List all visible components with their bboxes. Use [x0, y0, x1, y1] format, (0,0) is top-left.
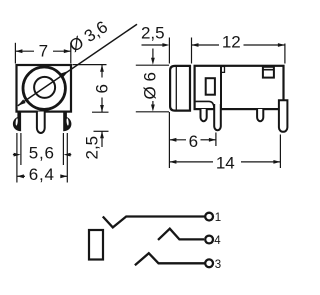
dim 5,6 left outside arrow: [13, 154, 16, 156]
svg-text:2,5: 2,5: [82, 136, 101, 160]
dim 5,6 right outside arrow: [68, 154, 71, 156]
svg-text:6,4: 6,4: [29, 165, 55, 184]
side view window top right: [263, 67, 274, 78]
dim 12 arrow left: [192, 43, 199, 47]
front 6 top extension line: [73, 64, 107, 66]
schematic contact 1 wire: [103, 217, 205, 228]
front view right mounting tab: [63, 111, 71, 132]
dim 14 arrow right: [273, 160, 280, 164]
front view center pin: [37, 112, 45, 134]
diameter 6 top extension line: [136, 64, 169, 66]
dim 7 arrow left: [15, 49, 22, 53]
dim 5,6 left extension lines: [16, 133, 18, 183]
svg-text:12: 12: [222, 33, 241, 52]
svg-text:4: 4: [214, 235, 221, 247]
dim 5,6 right extension lines: [62, 133, 64, 165]
side view mounting bracket: [195, 101, 214, 108]
side view window top right inner bar: [263, 69, 274, 71]
side 2,5 left extension line (bushing face): [168, 38, 170, 64]
svg-text:6: 6: [93, 84, 112, 93]
dim 6,4 line: [17, 175, 25, 177]
schematic terminal circle 4: [205, 236, 213, 244]
dim 14 right extension line: [279, 135, 281, 169]
side view notch at divider top: [222, 67, 225, 73]
dim 7 arrow right: [64, 49, 71, 53]
schematic contact 3 wire: [135, 253, 205, 265]
svg-text:6: 6: [189, 132, 198, 151]
side 2,5 leader with right arrow: [142, 44, 164, 46]
side view window left: [206, 78, 215, 95]
side view leg 1: [201, 109, 207, 121]
front view outer barrel circle: [23, 67, 65, 109]
side dim 6 line: [169, 139, 186, 141]
svg-text:Ø 6: Ø 6: [141, 72, 160, 99]
svg-text:3: 3: [215, 259, 221, 271]
diameter leader arrowhead lower-left: [18, 99, 26, 105]
svg-text:5,6: 5,6: [29, 144, 55, 163]
side view rear plate pin: [279, 100, 288, 132]
front dim 6 line upper segment with up arrow: [101, 65, 103, 78]
side view bushing rim line: [175, 67, 177, 111]
side view leg 2 (long pin): [214, 104, 221, 130]
schematic contact 4 wire: [158, 229, 204, 240]
side dim 6 right extension line: [215, 133, 217, 147]
svg-text:1: 1: [215, 212, 221, 224]
diameter leader arrowhead upper-right: [61, 71, 69, 77]
dim 6,4 arrow right: [60, 174, 67, 178]
dim 12 right extension line: [284, 44, 286, 64]
side view main body: [195, 66, 284, 109]
dim 14 arrow left: [169, 160, 176, 164]
front 2,5 bottom extension line: [94, 130, 109, 132]
front view body square: [17, 65, 72, 112]
diameter 6 upper down-arrow: [152, 49, 154, 59]
schematic terminal circle 1: [205, 213, 213, 221]
side view bushing: [170, 66, 190, 111]
side view internal divider: [220, 66, 222, 109]
schematic plug rectangle: [89, 230, 103, 260]
side dim 6 left extension line: [168, 112, 170, 168]
front view left mounting tab: [13, 111, 21, 132]
side dim 6 arrow left: [169, 138, 176, 142]
svg-text:14: 14: [216, 153, 235, 172]
dim 12 line: [192, 44, 220, 46]
dim 7 left extension line: [14, 43, 16, 64]
side view leg 3: [257, 109, 263, 121]
diameter 6 bottom extension line: [136, 111, 169, 113]
dim 12 arrow right: [278, 43, 285, 47]
svg-text:7: 7: [39, 42, 48, 61]
side dim 6 arrow right: [209, 138, 216, 142]
dim 7 line: [15, 50, 34, 52]
side 2,5 / 12 shared extension line: [191, 38, 193, 64]
dim 7 right extension line: [70, 43, 72, 64]
dim 14 line: [169, 161, 213, 163]
front dim 6 lower segment with down arrow: [101, 98, 103, 113]
front 6/2,5 middle extension line: [92, 111, 109, 113]
front dim 2,5 up arrow below bottom line: [101, 132, 103, 148]
diameter leader line for hole: [18, 24, 137, 106]
diameter 6 lower down-arrow: [152, 101, 154, 105]
svg-text:2,5: 2,5: [141, 23, 165, 42]
front view inner hole circle: [34, 77, 55, 98]
dim 6,4 arrow left: [17, 174, 24, 178]
schematic terminal circle 3: [205, 259, 213, 267]
